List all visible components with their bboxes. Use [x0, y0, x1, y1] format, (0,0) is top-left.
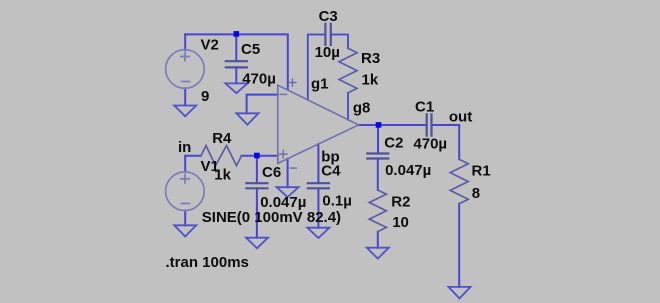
voltage source V1	[166, 172, 205, 211]
op-amp V+ marking	[289, 79, 296, 86]
capacitor C5	[226, 61, 247, 67]
ground for inverting input	[236, 113, 258, 124]
wire R1 bottom to ground	[458, 204, 460, 287]
wire op-amp output to C1	[359, 124, 427, 126]
svg-text:V2: V2	[201, 37, 219, 54]
svg-text:470µ: 470µ	[413, 136, 447, 153]
wire inverting input to ground	[247, 95, 278, 114]
ground below V1	[174, 225, 196, 236]
ground below R1	[449, 287, 471, 299]
wire V1 stem bottom	[184, 211, 186, 226]
ground below C4	[307, 228, 329, 238]
wire C5 stem top	[235, 34, 237, 61]
svg-text:g8: g8	[353, 99, 371, 116]
capacitor C3	[325, 24, 330, 45]
node junction at R4/C6/in+	[254, 153, 260, 159]
voltage source V2	[166, 50, 205, 89]
svg-text:C5: C5	[241, 41, 260, 58]
wire C4 stem bottom	[317, 188, 319, 227]
ground below C5	[225, 83, 247, 93]
op-amp inverting input marking	[280, 93, 286, 95]
wire top supply rail	[185, 34, 288, 89]
svg-text:R1: R1	[472, 162, 491, 179]
ground below V2	[174, 106, 196, 117]
capacitor C1	[427, 114, 432, 135]
resistor R1	[450, 159, 468, 204]
svg-text:1k: 1k	[362, 71, 379, 88]
svg-text:C1: C1	[415, 99, 434, 116]
wire C3 to R3 top	[331, 35, 348, 49]
svg-text:10µ: 10µ	[315, 44, 340, 61]
wire C6 stem top	[256, 156, 258, 183]
op-amp gnd pin marking	[290, 167, 296, 169]
ground below R2	[367, 248, 389, 259]
wire R4 to noninverting input	[242, 155, 278, 157]
op-amp U1 body	[278, 85, 359, 163]
wire C6 stem bottom	[256, 188, 258, 237]
capacitor C6	[246, 183, 267, 188]
wire in node to R4	[185, 155, 201, 157]
svg-text:9: 9	[201, 88, 209, 105]
resistor R4	[201, 146, 242, 166]
svg-text:R2: R2	[391, 194, 410, 211]
capacitor C4	[308, 183, 329, 188]
svg-text:C4: C4	[321, 163, 341, 180]
wire bp pin to C4	[317, 144, 319, 183]
wire V2 stem bottom	[184, 88, 186, 105]
wire V1 stem top	[184, 156, 186, 172]
svg-text:470µ: 470µ	[242, 71, 276, 88]
svg-text:C3: C3	[319, 8, 338, 25]
svg-text:0.047µ: 0.047µ	[385, 162, 431, 179]
svg-text:0.1µ: 0.1µ	[322, 193, 352, 210]
svg-text:.tran 100ms: .tran 100ms	[166, 254, 249, 271]
wire R2 bottom to ground	[377, 232, 379, 248]
svg-text:SINE(0 100mV 82.4): SINE(0 100mV 82.4)	[202, 209, 341, 226]
svg-text:1k: 1k	[214, 166, 231, 183]
wire R3 bottom to g8 pin	[347, 93, 349, 120]
ground below op-amp gnd pin	[277, 187, 299, 197]
svg-text:C2: C2	[384, 135, 403, 152]
capacitor C2	[367, 154, 388, 159]
svg-text:R4: R4	[212, 130, 232, 147]
svg-text:R3: R3	[361, 50, 380, 67]
svg-text:out: out	[449, 109, 472, 126]
svg-text:10: 10	[392, 214, 409, 231]
wire C1 to out node	[432, 125, 460, 159]
node junction at C5 tap	[234, 31, 240, 37]
resistor R3	[339, 48, 357, 93]
svg-text:8: 8	[472, 185, 480, 202]
wire C2 to R2	[377, 159, 379, 191]
op-amp noninverting input marking	[280, 151, 287, 158]
node junction at output	[376, 122, 382, 128]
wire V2 stem top	[184, 34, 186, 50]
wire C5 stem bottom	[235, 67, 237, 83]
wire op-amp gnd pin	[287, 159, 289, 187]
svg-text:C6: C6	[262, 164, 281, 181]
ground below C6	[246, 238, 268, 249]
svg-text:in: in	[178, 139, 191, 156]
svg-text:g1: g1	[311, 76, 329, 93]
wire g1 riser to C3	[308, 35, 326, 100]
resistor R2	[369, 190, 386, 232]
wire C2 stem top	[377, 125, 379, 154]
